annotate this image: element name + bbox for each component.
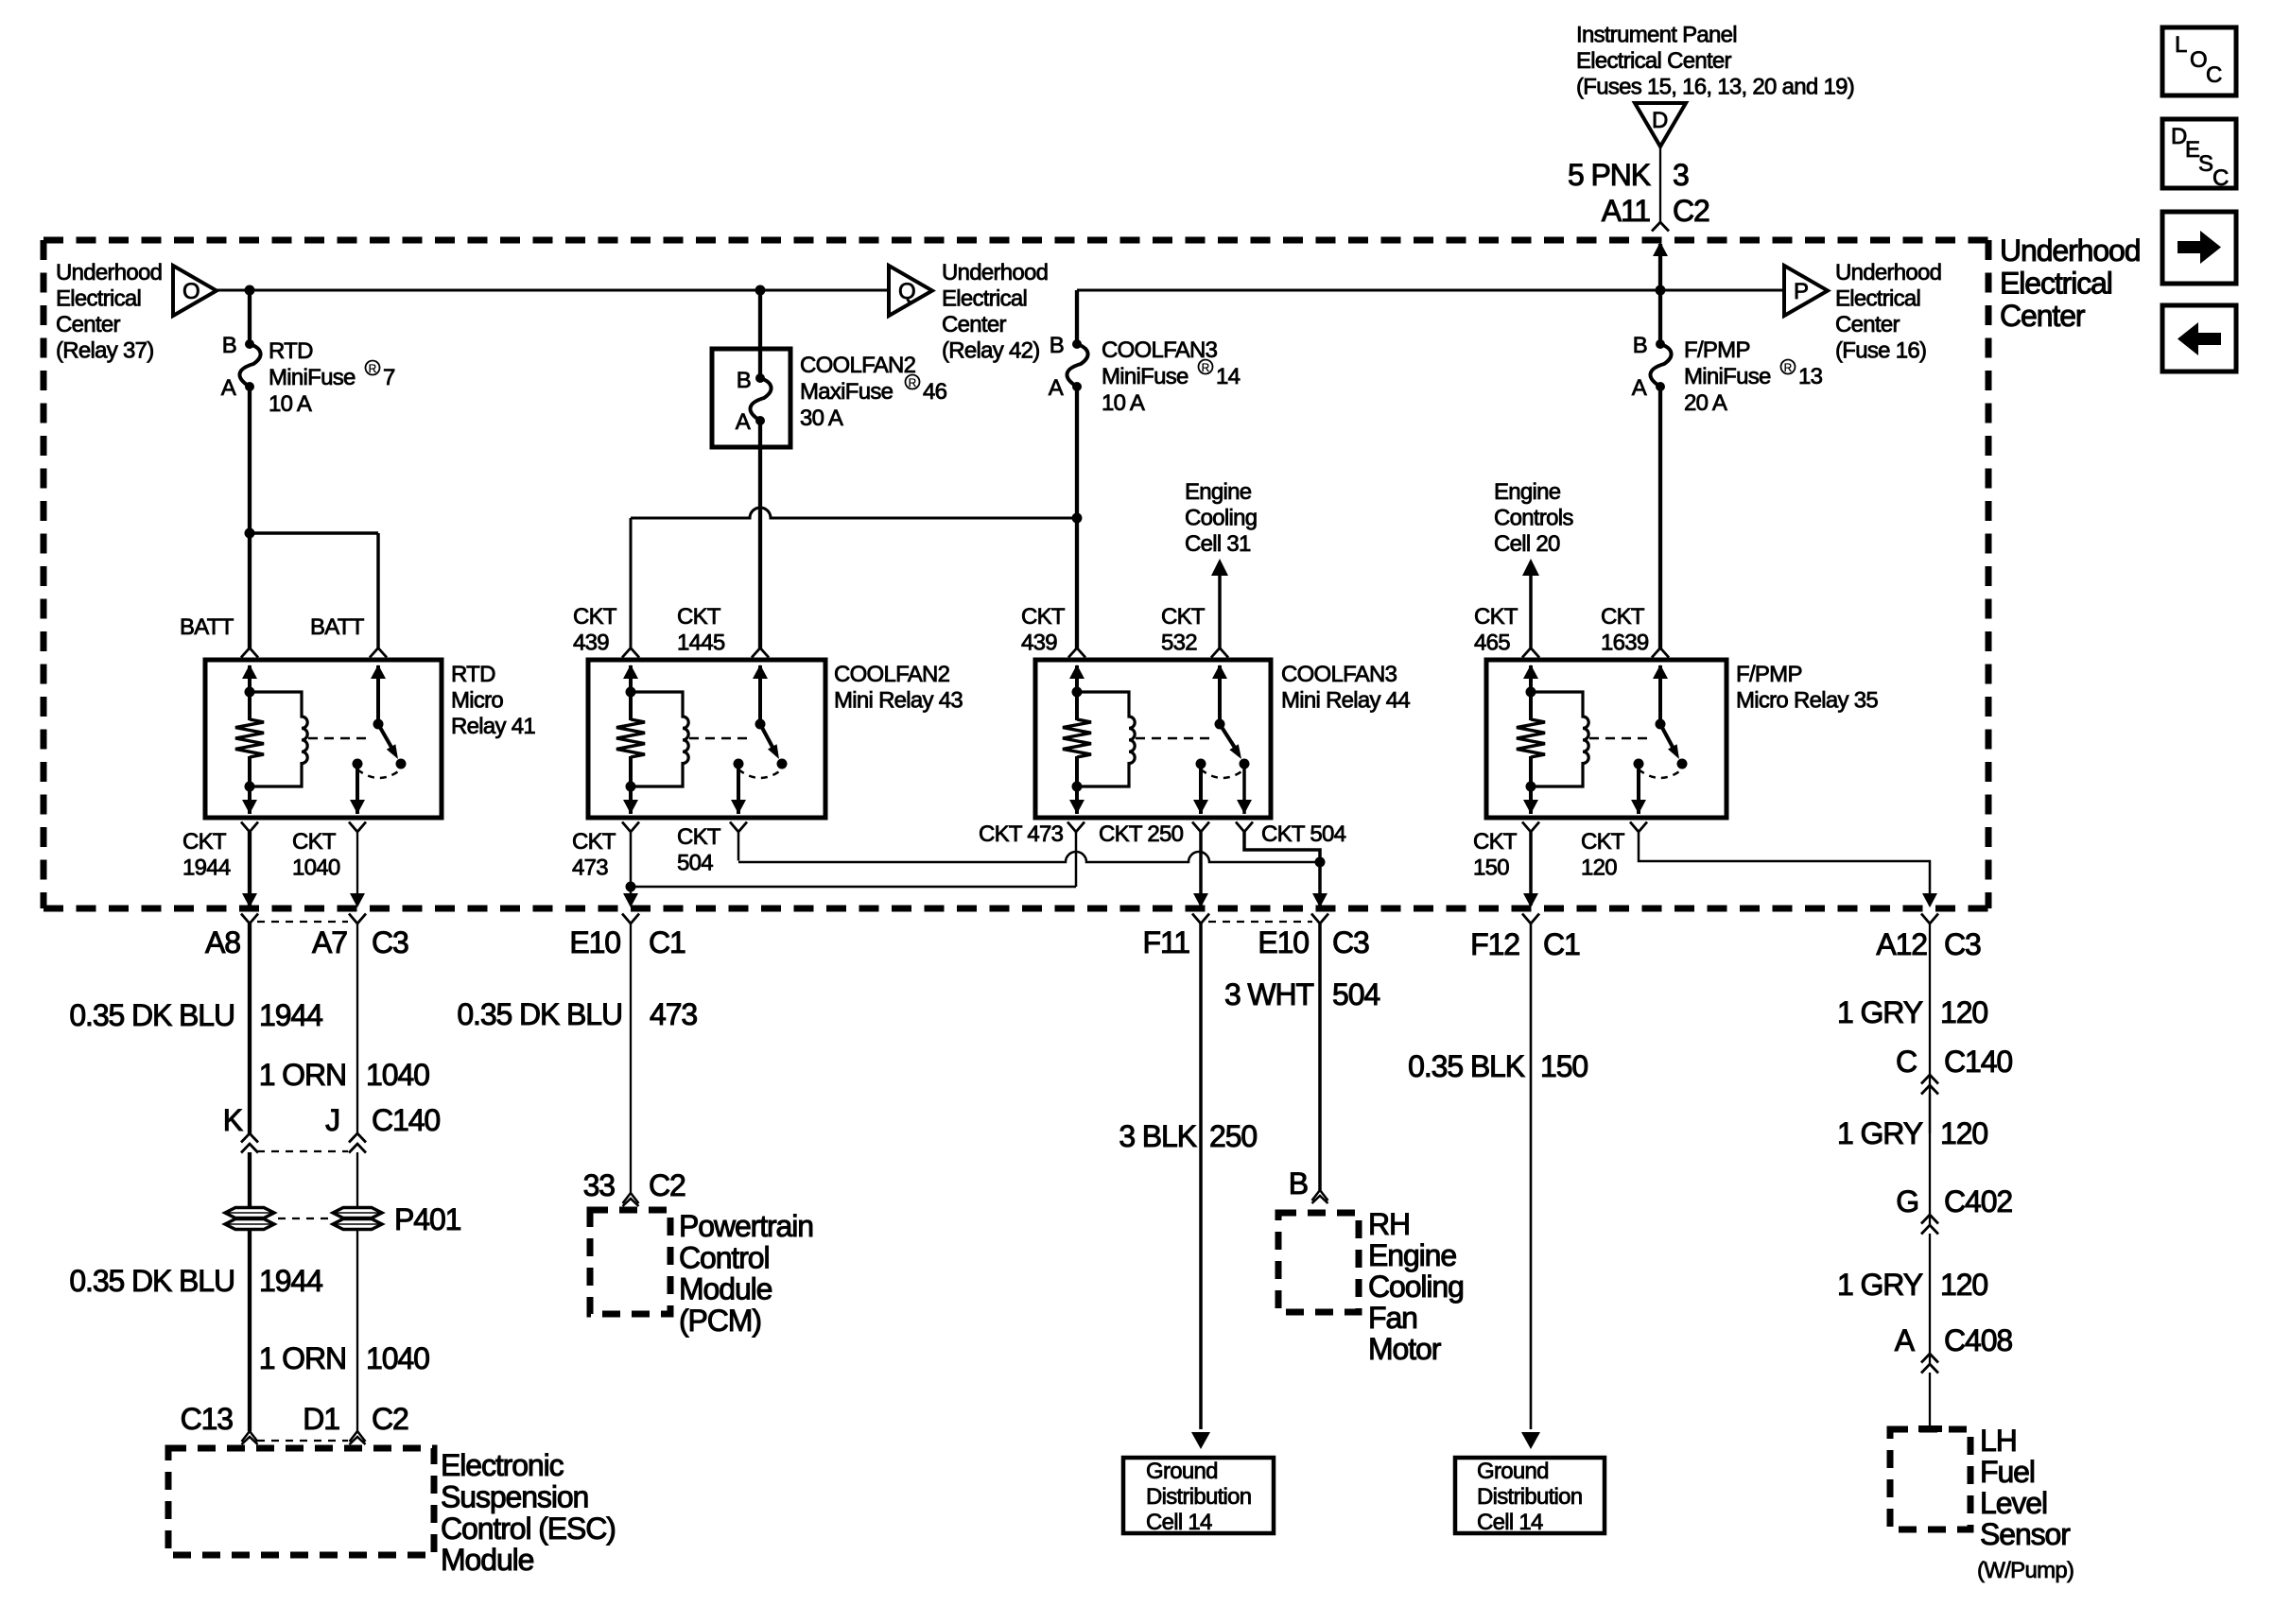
svg-text:1 ORN: 1 ORN [259,1341,346,1375]
relay K35 switch pivot [1656,719,1666,730]
junction dot: COOLFAN2 fuse tap on bus [755,285,766,296]
relay K35 resistor [1529,692,1533,720]
wire: 1944 connector K to splice P401 [248,1152,252,1206]
svg-text:Module: Module [679,1272,772,1306]
wire: 1944 splice to ESC pin C13 [248,1231,252,1431]
svg-text:3 WHT: 3 WHT [1224,977,1314,1011]
labels CKT 473 / CKT 250 / CKT 504 below relay 44 [979,821,1346,847]
labels B / A for COOLFAN3 fuse pins [1049,333,1064,401]
relay K41 coil node top [245,687,255,698]
wire with up arrow to Engine Controls Cell 20 (CKT 465) [1522,559,1539,576]
relay K44 coil winding [1077,692,1135,786]
svg-text:532: 532 [1161,631,1197,656]
connector halves above relay 43 [622,648,639,658]
svg-text:MaxiFuse: MaxiFuse [800,379,894,405]
svg-text:A: A [736,409,751,435]
svg-text:C1: C1 [1543,927,1580,961]
ground feed arrowhead into Ground Distribution (right) [1521,1432,1540,1449]
dashed connector tie C13-D1 [257,1440,348,1442]
svg-text:120: 120 [1940,995,1987,1029]
svg-text:Mini Relay 43: Mini Relay 43 [834,688,963,714]
svg-text:F/PMP: F/PMP [1684,337,1750,363]
svg-text:A12: A12 [1876,927,1927,961]
svg-text:C2: C2 [649,1168,685,1202]
svg-text:G: G [1896,1184,1918,1218]
wire: circuit 120 segment to C140 [1929,924,1931,1133]
svg-text:Fuel: Fuel [1980,1455,2035,1489]
ground feed arrowhead into Ground Distribution (left) [1191,1432,1210,1449]
svg-text:BATT: BATT [310,614,365,640]
wire: 5 PNK 3 from triangle D down to connector A11/C2 [1659,147,1661,222]
dashed connector tie A8-A7 [257,921,348,923]
label: RH Engine Cooling Fan Motor [1368,1207,1464,1366]
relay box K35 [1486,660,1726,818]
connector A12 / C3 below boundary [1921,914,1938,924]
label: Electronic Suspension Control (ESC) Module [441,1448,616,1577]
relay K35 normally-open contact [1677,759,1688,769]
wire: main feed bus segment from COOLFAN3 drop to triangle P [1077,289,1784,292]
junction dot at BATT split [245,528,255,539]
relay K43 coil node top [626,687,636,698]
relay K35 contact dashed arc [1639,769,1682,778]
svg-text:10 A: 10 A [269,391,312,417]
labels B / A for MaxiFuse pins [736,368,751,435]
svg-text:120: 120 [1940,1116,1987,1150]
svg-text:1 ORN: 1 ORN [259,1058,346,1092]
svg-text:C: C [2206,62,2222,88]
svg-text:C: C [2212,165,2229,191]
svg-text:Electrical: Electrical [2000,267,2112,301]
relay K35 switch input pin arrow [1658,665,1662,724]
legend box right-arrow [2162,212,2236,284]
Underhood Electrical Center dashed boundary box [43,240,1988,908]
wire: COOLFAN3 fuse A down to relay 44 coil pin [1075,387,1079,648]
labels 5 PNK / 3 wire spec [1568,158,1689,192]
svg-text:3: 3 [1673,158,1689,192]
svg-text:Cooling: Cooling [1185,506,1257,531]
connector A11 C2 half symbol [1652,222,1669,232]
svg-text:E10: E10 [569,925,620,959]
ESC module pin C13 connector [242,1431,258,1442]
RH Engine Cooling Fan Motor dashed box [1278,1213,1359,1312]
connector halves above relay 44 [1068,648,1085,658]
wire spec label 1 GRY 120 (third) [1837,1268,1987,1302]
wire: fused feed entering underhood center at A11, arrow up at boundary [1653,242,1668,256]
wire with up arrow to Engine Cooling Cell 31 (CKT 532) [1211,559,1228,576]
label: Underhood Electrical Center (right margin) [2000,233,2140,333]
connector halves below relay 35 [1522,822,1539,833]
wire: circuit 120 segment to C408 [1929,1234,1931,1363]
svg-text:Powertrain: Powertrain [679,1209,813,1243]
wire: bus to RTD MiniFuse terminal B [248,290,252,344]
relay K35 coil node top [1526,687,1536,698]
label: Powertrain Control Module (PCM) [679,1209,813,1338]
svg-text:Center: Center [942,312,1006,337]
svg-text:C402: C402 [1944,1184,2012,1218]
Ground Distribution Cell 14 box (right) [1455,1458,1605,1535]
svg-text:13: 13 [1798,364,1823,389]
svg-text:D1: D1 [303,1402,339,1436]
relay box K44 [1035,660,1271,818]
connector halves below relay 44 [1067,822,1084,833]
off-page connector triangle D (points down) [1635,103,1686,147]
svg-text:C13: C13 [181,1402,234,1436]
off-page connector triangle O [173,266,217,316]
svg-text:1040: 1040 [366,1058,429,1092]
svg-text:CKT: CKT [677,604,721,630]
connector C402 pin G [1896,1184,2012,1235]
relay K41 resistor [248,692,252,720]
relay K41 coil winding [250,692,307,786]
connector C408 pin A [1895,1323,2013,1373]
svg-text:Mini Relay 44: Mini Relay 44 [1281,688,1410,714]
fuse F-FPMP MiniFuse 13 element [1650,339,1671,391]
svg-text:0.35 DK BLU: 0.35 DK BLU [69,1264,234,1298]
svg-text:C1: C1 [649,925,685,959]
wire: BATT feed down to relay 41 coil pin [248,533,252,648]
relay K43 actuation dashed link [689,737,751,740]
wire: relay 44 CKT 250 down through boundary (hop drawn on y912 line) [1199,832,1203,906]
svg-text:B: B [1633,333,1647,358]
svg-text:150: 150 [1473,855,1509,881]
svg-text:Cell 14: Cell 14 [1477,1510,1543,1535]
svg-text:COOLFAN2: COOLFAN2 [834,662,950,687]
junction dot: CKT473 / crossover from relay 44 [626,882,636,892]
relay K44 coil node bottom [1072,782,1083,792]
dashed connector tie F11-E10 [1208,921,1312,923]
relay K43 switch input pin arrow [758,665,762,724]
wire: BATT jumper across to switch feed [250,531,378,535]
svg-text:1040: 1040 [292,855,340,881]
Ground Distribution Cell 14 box (left) [1123,1458,1274,1535]
connector A8 below boundary [241,914,258,924]
svg-text:C2: C2 [1673,194,1709,228]
wire: circuit 504 down to RH fan motor pin B [1318,924,1322,1190]
labels CKT 1944 / CKT 1040 below relay 41 [182,829,340,881]
junction dot at E10/C3 drop [1315,857,1326,868]
relay K35 switch output pin arrow [1631,800,1646,814]
relay K44 actuation dashed link [1136,737,1210,740]
svg-text:O: O [2190,47,2207,73]
relay K43 resistor [629,692,633,720]
svg-text:(Fuse 16): (Fuse 16) [1835,338,1926,364]
svg-text:1 GRY: 1 GRY [1837,1116,1923,1150]
svg-text:473: 473 [572,855,608,881]
relay K41 switch pivot [373,719,384,730]
svg-text:Electrical: Electrical [1835,286,1920,312]
svg-text:CKT: CKT [1601,604,1645,630]
svg-text:O: O [182,279,200,304]
svg-text:C140: C140 [1944,1045,2012,1079]
svg-text:Module: Module [441,1543,534,1577]
wire: 1040 splice to ESC pin D1 [356,1231,358,1431]
relay K44 switch pivot [1215,719,1225,730]
svg-text:C2: C2 [372,1402,408,1436]
svg-text:CKT: CKT [1161,604,1206,630]
svg-text:R: R [909,376,917,389]
label: F/PMP MiniFuse(R) 13 20 A [1684,337,1823,416]
svg-text:504: 504 [1332,977,1379,1011]
wire spec label 1 ORN 1040 (lower) [259,1341,429,1375]
COOLFAN2 MaxiFuse 46 box [712,349,790,447]
wire: relay 43 CKT 504 down then right (y912) to E10/C3 drop, hops over relay44 wires [737,832,740,861]
svg-text:0.35 DK BLU: 0.35 DK BLU [457,997,622,1031]
svg-text:L: L [2175,32,2187,58]
relay K41 coil input pin arrow [248,665,252,694]
wire: circuit 250 down to ground arrow [1199,924,1203,1429]
svg-text:C3: C3 [1944,927,1981,961]
svg-text:20 A: 20 A [1684,390,1727,416]
svg-text:R: R [369,362,377,375]
svg-text:Ground: Ground [1146,1459,1218,1484]
svg-text:D: D [1652,108,1668,133]
relay K41 switch blade [378,724,393,751]
svg-text:CKT: CKT [292,829,337,855]
svg-text:A: A [1895,1323,1916,1357]
svg-text:504: 504 [677,851,713,876]
wire spec label 0.35 DK BLU 1944 (upper) [69,998,322,1032]
svg-text:Instrument Panel: Instrument Panel [1576,23,1737,48]
relay K41 coil return pin arrow [242,800,257,814]
label: COOLFAN3 MiniFuse(R) 14 10 A [1102,337,1241,416]
wire spec label 0.35 BLK 150 [1408,1049,1588,1083]
relay box K43 [588,660,825,818]
relay K44 common contact [1196,759,1206,769]
svg-text:0.35 BLK: 0.35 BLK [1408,1049,1525,1083]
wire: relay 35 CKT 150 down through boundary [1529,832,1533,906]
wire: circuit 1944 A8 to connector K [248,924,252,1134]
legend box left-arrow [2162,305,2236,371]
svg-text:COOLFAN2: COOLFAN2 [800,353,916,378]
svg-text:J: J [325,1103,339,1137]
label: LH Fuel Level Sensor (W/Pump) [1977,1424,2073,1583]
labels CKT 439 / CKT 532 above relay 44 [1021,604,1206,656]
off-page connector triangle P [1784,266,1828,316]
relay K43 common contact [734,759,744,769]
wire: bus corner down to COOLFAN3 MiniFuse [1075,290,1079,344]
off-page connector triangle Q [889,266,932,316]
svg-text:150: 150 [1540,1049,1588,1083]
relay K35 common contact [1634,759,1644,769]
PCM pin 33 / C2 connector [623,1193,639,1203]
relay K43 switch output pin arrow [731,800,746,814]
wire spec label 0.35 DK BLU 1944 (lower) [69,1264,322,1298]
svg-text:B: B [222,333,236,358]
svg-text:CKT: CKT [1021,604,1066,630]
wire: F/PMP fuse A down to relay 35 switch pin (CKT 1639) [1658,387,1662,648]
wire: circuit 150 down to ground arrow [1530,924,1533,1429]
svg-text:Cell 14: Cell 14 [1146,1510,1212,1535]
LH fuel sensor wire termination bar [1918,1425,1942,1432]
labels CKT 439 / CKT 1445 above relay 43 [573,604,725,656]
fuse F-RTD MiniFuse 7 10A element [239,339,260,391]
wire: relay 43 CKT 473 down through boundary to E10 [630,832,633,906]
wire: circuit 473 down to PCM pin 33 [630,924,632,1193]
svg-text:Micro: Micro [451,688,503,714]
relay K43 switch blade [760,724,774,751]
svg-text:1944: 1944 [259,998,322,1032]
wire: bus down to COOLFAN2 MaxiFuse box [758,290,762,378]
svg-text:CKT: CKT [573,604,617,630]
wire: MaxiFuse A down to relay 43 switch pin (CKT 1445) [758,421,762,648]
svg-text:Micro Relay 35: Micro Relay 35 [1736,688,1878,714]
label for triangle P: Underhood Electrical Center (Fuse 16) [1835,260,1941,364]
svg-text:S: S [2198,151,2212,177]
connector C140 pin K [223,1103,258,1153]
svg-text:Ground: Ground [1477,1459,1549,1484]
svg-text:439: 439 [1021,631,1057,656]
svg-text:CKT: CKT [1581,829,1625,855]
relay K41 actuation dashed link [308,737,369,740]
label for triangle O: Underhood Electrical Center (Relay 37) [56,260,162,364]
connector halves below relay 43 [622,822,639,833]
relay K41 common contact [353,759,363,769]
svg-text:C408: C408 [1944,1323,2012,1357]
wire: RTD fuse A down to BATT split node [248,387,252,533]
labels CKT 150 / CKT 120 below relay 35 [1473,829,1625,881]
svg-text:7: 7 [383,365,395,390]
wire: CKT 1944 from relay 41 to boundary, exit arrow [248,832,252,906]
relay K44 resistor [1075,692,1079,720]
svg-text:Center: Center [2000,299,2086,333]
wire spec label 3 BLK 250 [1119,1119,1257,1153]
labels B / A for RTD fuse pins [221,333,236,401]
svg-text:CKT: CKT [1473,829,1518,855]
relay K43 coil node bottom [626,782,636,792]
wire: relay 35 CKT 120 down, right along y911, down through boundary at A12 [1639,832,1930,906]
wire: circuit 120 segment to C402 [1929,1094,1931,1224]
svg-text:(Fuses 15, 16, 13, 20 and 19): (Fuses 15, 16, 13, 20 and 19) [1576,75,1854,100]
svg-text:Underhood: Underhood [2000,233,2140,268]
svg-text:(W/Pump): (W/Pump) [1977,1558,2073,1583]
svg-text:1944: 1944 [182,855,231,881]
svg-text:Motor: Motor [1368,1332,1442,1366]
relay K43 contact dashed arc [738,769,782,778]
relay K35 switch blade [1660,724,1674,751]
svg-text:C3: C3 [1332,925,1369,959]
splice P401 on circuit 1944 [225,1208,274,1218]
svg-text:Center: Center [56,312,120,337]
svg-text:10 A: 10 A [1102,390,1145,416]
label: COOLFAN2 MaxiFuse(R) 46 30 A [800,353,947,431]
svg-text:33: 33 [583,1168,616,1202]
wire: relay 44 CKT 473 down to crossover y938 [1075,832,1078,887]
relay K44 contact output pin arrow [1242,764,1246,814]
connector halves above relay 41 (BATT pins) [241,648,258,658]
LH Fuel Level Sensor dashed box [1890,1429,1970,1529]
Powertrain Control Module dashed box [590,1210,670,1314]
connector C140 pin J and label C140 [325,1103,440,1153]
svg-text:Fan: Fan [1368,1301,1417,1335]
svg-text:A7: A7 [312,925,347,959]
relay K44 coil return pin arrow [1069,800,1084,814]
svg-text:C: C [1896,1045,1917,1079]
wire spec label 0.35 DK BLU 473 [457,997,697,1031]
relay K41 switch output pin arrow [350,800,365,814]
svg-text:46: 46 [923,379,947,405]
svg-text:Distribution: Distribution [1477,1484,1582,1510]
svg-text:Relay 41: Relay 41 [451,714,535,739]
relay K43 coil winding [631,692,688,786]
label: Engine Controls Cell 20 [1494,479,1573,557]
svg-text:CKT 504: CKT 504 [1261,821,1346,847]
wire: circuit 1040 A7 to connector J [356,924,358,1134]
svg-text:Control: Control [679,1240,769,1274]
labels CKT 473 / CKT 504 below relay 43 [572,824,721,881]
wire: 1040 connector J to splice P401 [356,1152,358,1206]
svg-text:465: 465 [1474,631,1510,656]
junction dot: RTD fuse tap on bus [245,285,255,296]
relay K35 coil input pin arrow [1529,665,1533,694]
svg-text:A: A [221,375,236,401]
svg-text:Underhood: Underhood [942,260,1048,285]
fuse F-COOLFAN2 MaxiFuse 46 element [750,373,771,425]
svg-text:B: B [737,368,751,393]
svg-text:Electrical: Electrical [942,286,1027,312]
legend box DESC [2162,119,2236,191]
svg-text:14: 14 [1216,364,1241,389]
relay K44 contact dashed arc [1201,769,1244,778]
connector halves above relay 35 [1522,648,1539,658]
wire spec label 1 ORN 1040 (upper) [259,1058,429,1092]
svg-text:120: 120 [1581,855,1617,881]
svg-text:E: E [2185,137,2199,163]
svg-text:Sensor: Sensor [1980,1517,2071,1551]
connector E10 / C1 below boundary [622,914,639,924]
svg-text:A: A [1632,375,1647,401]
wire spec label 3 WHT 504 [1224,977,1379,1011]
relay K44 normally-open contact [1240,759,1250,769]
junction dot on COOLFAN3 drop at y548 [1072,513,1083,524]
labels CKT 465 / CKT 1639 above relay 35 [1474,604,1649,656]
labels A11 / C2 [1602,194,1709,228]
svg-text:COOLFAN3: COOLFAN3 [1281,662,1397,687]
relay K43 switch pivot [755,719,766,730]
svg-text:C3: C3 [372,925,408,959]
relay K44 switch input pin arrow [1218,665,1222,724]
svg-text:RTD: RTD [269,338,313,364]
dashed tie between splices [278,1218,329,1219]
relay K41 switch input pin arrow [376,665,380,724]
svg-text:B: B [1289,1166,1308,1201]
svg-text:F11: F11 [1143,925,1190,959]
svg-text:K: K [223,1103,243,1137]
svg-text:P401: P401 [394,1202,461,1236]
svg-text:(Relay 37): (Relay 37) [56,338,154,364]
relay K43 coil return pin arrow [623,800,638,814]
svg-text:CKT: CKT [677,824,721,850]
connector E10 / C3 below boundary [1311,914,1328,924]
wire: distribution from fuse taps to relay coils with hop over 1445 wire [631,508,1077,518]
connector F11 below boundary [1192,914,1209,924]
svg-text:Electronic: Electronic [441,1448,564,1482]
relay K44 switch output pin arrow [1193,800,1208,814]
junction dot: F/PMP fuse tap on bus [1656,285,1666,296]
connector A7 / C3 below boundary [349,914,366,924]
RH fan motor pin B connector [1312,1190,1328,1201]
relay K44 coil node top [1072,687,1083,698]
ESC module pin D1 / C2 connector [350,1431,366,1442]
relay K35 coil winding [1531,692,1588,786]
dashed connector tie K-J (C140) [257,1150,348,1152]
svg-text:CKT: CKT [572,829,616,855]
svg-text:R: R [1202,361,1210,374]
relay K43 coil input pin arrow [629,665,633,694]
svg-text:MiniFuse: MiniFuse [1102,364,1189,389]
wire: main feed bus segment from triangle O to triangle Q [217,289,888,292]
svg-text:1 GRY: 1 GRY [1837,1268,1923,1302]
label: Engine Cooling Cell 31 [1185,479,1257,557]
